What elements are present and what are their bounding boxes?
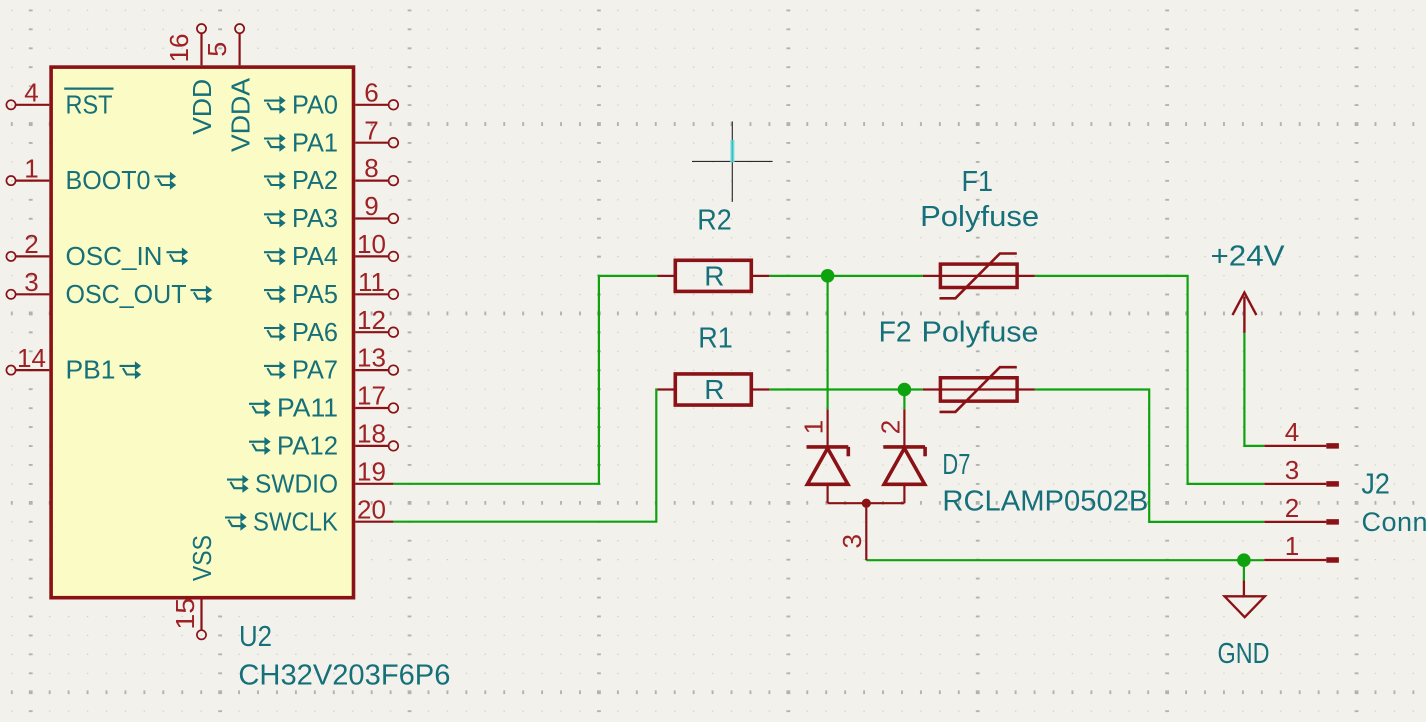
diode D7 unit 2 [903, 409, 905, 447]
svg-text:PA6: PA6 [292, 317, 338, 347]
wire F2 right to J2 pin2 [1035, 390, 1265, 522]
svg-text:Polyfuse: Polyfuse [922, 316, 1039, 348]
svg-text:Polyfuse: Polyfuse [920, 201, 1039, 233]
svg-text:7: 7 [364, 115, 378, 145]
svg-text:4: 4 [1285, 417, 1299, 447]
svg-text:Conn_01x04: Conn_01x04 [1362, 507, 1426, 537]
resistor R1 [658, 388, 676, 390]
connector J2 pin 3 [1264, 483, 1326, 485]
svg-text:OSC_OUT: OSC_OUT [66, 279, 187, 309]
svg-text:1: 1 [24, 153, 38, 183]
svg-text:8: 8 [364, 153, 378, 183]
svg-text:3: 3 [837, 534, 867, 548]
svg-text:20: 20 [357, 494, 386, 524]
svg-text:R: R [704, 260, 724, 291]
svg-text:RST: RST [66, 89, 113, 119]
svg-text:5: 5 [202, 42, 232, 57]
svg-text:VSS: VSS [187, 535, 217, 581]
svg-text:9: 9 [364, 191, 378, 221]
pin 10 PA4 (right) [355, 255, 389, 257]
svg-text:OSC_IN: OSC_IN [66, 241, 163, 271]
D7 common cathode link [828, 502, 905, 504]
wire SWDIO to R2 left [393, 276, 657, 484]
svg-text:CH32V203F6P6: CH32V203F6P6 [238, 659, 450, 691]
svg-text:2: 2 [24, 229, 38, 259]
svg-text:J2: J2 [1361, 469, 1390, 501]
pin 20 SWCLK (right) [355, 521, 393, 523]
junction on R1 net [898, 383, 912, 397]
pin 5 VDDA (top) [239, 33, 241, 65]
svg-text:VDDA: VDDA [225, 77, 255, 152]
wire junction down to D7 pin2 [903, 390, 905, 410]
svg-text:12: 12 [357, 305, 386, 335]
pin 4 RST (left) [16, 104, 50, 106]
editor crosshair cursor [692, 160, 773, 162]
pin 1 BOOT0 (left) [16, 180, 50, 182]
svg-text:1: 1 [1285, 531, 1299, 561]
polyfuse F2 [923, 388, 1035, 390]
snap anchor marker [730, 140, 734, 163]
svg-text:PA11: PA11 [277, 393, 338, 423]
wire F1 right to J2 pin3 [1035, 276, 1265, 484]
D7 pin 3 [865, 503, 867, 560]
wire D7 pin3 to J2 pin1 [866, 559, 1264, 561]
svg-text:10: 10 [357, 229, 386, 259]
pin 2 OSC_IN (left) [16, 255, 50, 257]
svg-text:14: 14 [17, 343, 46, 373]
pin 19 SWDIO (right) [355, 483, 393, 485]
svg-text:SWDIO: SWDIO [255, 468, 338, 498]
svg-text:3: 3 [24, 267, 38, 297]
svg-text:PB1: PB1 [66, 355, 116, 385]
pin 17 PA11 (right) [355, 407, 389, 409]
wire R2 right to F1 left [769, 275, 923, 277]
wire +24V to J2 pin4 [1244, 333, 1264, 446]
svg-text:PA2: PA2 [292, 165, 338, 195]
junction on R2 net [821, 269, 835, 283]
svg-text:6: 6 [364, 77, 378, 107]
svg-text:RCLAMP0502B: RCLAMP0502B [942, 486, 1148, 518]
junction at GND / J2 pin1 [1237, 553, 1251, 567]
pin 15 VSS (bottom) [200, 600, 202, 631]
power symbol +24V [1243, 297, 1245, 333]
svg-text:D7: D7 [942, 449, 970, 481]
svg-text:SWCLK: SWCLK [253, 506, 339, 536]
svg-text:F1: F1 [962, 166, 994, 198]
svg-text:VDD: VDD [187, 79, 217, 135]
svg-text:19: 19 [357, 456, 386, 486]
svg-text:PA3: PA3 [292, 203, 338, 233]
svg-text:15: 15 [170, 598, 200, 630]
svg-text:+24V: +24V [1211, 240, 1286, 272]
pin 8 PA2 (right) [355, 180, 389, 182]
svg-text:GND: GND [1218, 638, 1270, 670]
pin 9 PA3 (right) [355, 217, 389, 219]
wire SWCLK to R1 left [393, 390, 657, 522]
svg-text:2: 2 [1285, 493, 1299, 523]
pin 13 PA7 (right) [355, 369, 389, 371]
connector J2 pin 2 [1264, 521, 1326, 523]
resistor R2 [658, 275, 676, 277]
svg-text:PA7: PA7 [292, 355, 338, 385]
IC U2 body [51, 67, 353, 598]
wire R1 right to F2 left [769, 388, 923, 390]
pin 3 OSC_OUT (left) [16, 293, 50, 295]
svg-text:PA12: PA12 [277, 431, 338, 461]
pin 11 PA5 (right) [355, 293, 389, 295]
svg-text:16: 16 [164, 34, 194, 63]
connector J2 pin 4 [1264, 445, 1326, 447]
svg-text:PA5: PA5 [292, 279, 338, 309]
svg-text:BOOT0: BOOT0 [66, 165, 151, 195]
svg-text:17: 17 [357, 381, 386, 411]
svg-text:13: 13 [357, 343, 386, 373]
ground symbol [1243, 581, 1245, 597]
svg-text:3: 3 [1285, 455, 1299, 485]
pin 6 PA0 (right) [355, 104, 389, 106]
polyfuse F1 [923, 275, 1035, 277]
svg-text:4: 4 [24, 78, 38, 108]
diode D7 unit 1 [826, 409, 828, 447]
svg-text:R1: R1 [698, 323, 733, 355]
svg-text:R2: R2 [697, 205, 732, 237]
pin 14 PB1 (left) [16, 369, 50, 371]
svg-text:PA4: PA4 [292, 241, 338, 271]
pin 7 PA1 (right) [355, 142, 389, 144]
svg-text:PA1: PA1 [292, 127, 338, 157]
connector J2 pin 1 [1264, 559, 1326, 561]
wire junction to GND [1243, 560, 1245, 580]
svg-text:2: 2 [875, 420, 905, 434]
svg-text:U2: U2 [239, 621, 272, 653]
pin 16 VDD (top) [200, 33, 202, 65]
pin 12 PA6 (right) [355, 331, 389, 333]
svg-text:11: 11 [358, 267, 385, 297]
svg-text:1: 1 [799, 420, 829, 434]
pin 18 PA12 (right) [355, 445, 389, 447]
wire junction down to D7 pin1 [826, 276, 828, 409]
svg-text:R: R [704, 374, 724, 405]
svg-text:F2: F2 [879, 316, 912, 348]
svg-text:PA0: PA0 [292, 89, 338, 119]
svg-text:18: 18 [357, 419, 386, 449]
